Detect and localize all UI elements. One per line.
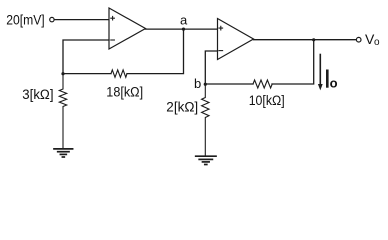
svg-text:o: o [374, 37, 380, 48]
label Io [326, 71, 329, 87]
wire R2 to node a riser [127, 29, 184, 74]
current arrow Io [318, 55, 323, 91]
input terminal [50, 17, 54, 21]
wire U2 output to Vo terminal [254, 39, 357, 41]
ground G2 [196, 156, 216, 164]
output junction [312, 38, 315, 41]
svg-text:18[kΩ]: 18[kΩ] [106, 85, 143, 100]
op-amp U1 [109, 8, 146, 49]
U2 minus pin mark [219, 50, 223, 52]
U1 minus pin mark [111, 39, 115, 41]
wire input to U1 plus [54, 19, 109, 21]
ground G1 [54, 149, 73, 157]
node b [204, 83, 207, 86]
resistor R1 3[kΩ] [59, 74, 66, 149]
wire U1 output to U2 plus [146, 28, 218, 30]
wire U1 minus to left junction [63, 40, 109, 74]
resistor R3 2[kΩ] [202, 84, 209, 156]
node a [182, 28, 185, 31]
svg-text:3[kΩ]: 3[kΩ] [22, 87, 53, 102]
svg-text:o: o [330, 75, 338, 90]
op-amp U2 [218, 19, 254, 60]
resistor R4 10[kΩ] [253, 80, 272, 88]
svg-text:a: a [180, 13, 188, 28]
svg-text:20[mV]: 20[mV] [6, 13, 45, 28]
U1 plus pin mark [111, 16, 115, 20]
junction left [61, 72, 64, 75]
output terminal Vo [356, 37, 361, 42]
wire U2 minus to node b [205, 51, 217, 84]
U2 plus pin mark [219, 26, 223, 30]
svg-text:10[kΩ]: 10[kΩ] [249, 93, 285, 108]
wire node b to R4 [205, 83, 253, 85]
wire junction to R2 [63, 73, 111, 75]
wire R4 to output junction [272, 40, 314, 84]
svg-text:b: b [194, 76, 201, 91]
svg-text:2[kΩ]: 2[kΩ] [166, 100, 198, 115]
resistor R2 18[kΩ] [111, 70, 127, 77]
